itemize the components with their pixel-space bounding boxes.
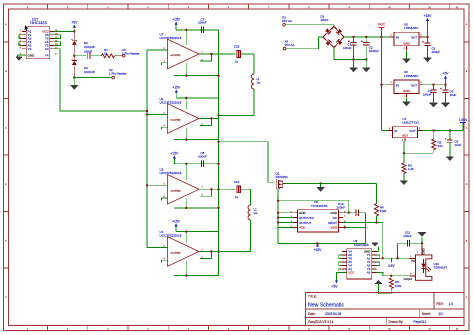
power flag +15V for U3 (171, 152, 180, 164)
wire D3 to X2 (74, 77, 110, 79)
wire U5 out to +15V (424, 37, 428, 42)
node junction C1 bottom (352, 58, 354, 60)
svg-text:TITLE:: TITLE: (308, 294, 317, 298)
svg-text:REV:: REV: (437, 302, 444, 306)
svg-text:OUTPUT/2: OUTPUT/2 (299, 216, 314, 220)
svg-text:1 Pin Header: 1 Pin Header (122, 52, 140, 56)
power flag +15V for U2 (172, 86, 181, 98)
node junction bus/C19 rail (217, 188, 219, 190)
net flag VCC (378, 23, 386, 37)
wire bridge bottom rail (334, 48, 366, 60)
svg-text:540: 540 (438, 144, 443, 148)
node junction C11/gnd/pin2 (421, 242, 423, 244)
wire output U7 (199, 54, 219, 61)
wire output U4 (199, 252, 219, 259)
ground R3 (400, 181, 408, 185)
svg-text:Output: Output (404, 277, 413, 281)
svg-text:TORH147: TORH147 (434, 265, 448, 269)
gate driver U3 UCC37322DIL8 (160, 168, 204, 204)
net flag 1.65V (459, 118, 468, 131)
resistor R4 100k (375, 204, 387, 223)
node junction C2 top (365, 36, 367, 38)
wire input pin4 stub U2 (162, 127, 168, 129)
svg-text:+15V: +15V (172, 86, 181, 90)
ground U1 (16, 57, 22, 61)
ground above opto (418, 233, 426, 244)
wire GND rail U2 (174, 128, 219, 140)
svg-text:Vcc: Vcc (411, 259, 416, 263)
diode D2 1N4148 (72, 31, 95, 55)
node junction ADJ/R3 (403, 152, 405, 154)
gate driver U4 UCC37322DIL8 (160, 230, 204, 266)
node junction bus/U2 input (146, 113, 148, 115)
node junction C6 top (449, 129, 451, 131)
wire input bus to gate drivers (147, 50, 168, 248)
wire loop U9 left A6-Y5 (339, 255, 342, 259)
svg-text:C19: C19 (234, 180, 240, 184)
node junction C5 (444, 84, 446, 86)
node junction R4/input (375, 221, 377, 223)
wire loop U9 right Y2-A2 (376, 262, 379, 266)
svg-text:100k: 100k (395, 284, 402, 288)
power flag +15V for U7 (172, 18, 181, 30)
node junction U8 pin1 (277, 212, 279, 214)
header X2 1 Pin Header (109, 68, 127, 79)
svg-text:Date:: Date: (308, 312, 316, 316)
node junction U5 out (426, 36, 428, 38)
svg-text:15V AC: 15V AC (285, 43, 296, 47)
ground on drain rail (317, 183, 325, 191)
node junction source branch (277, 200, 279, 202)
wire U6 out rail (424, 84, 446, 86)
wire X4 to bridge left (286, 37, 323, 49)
title block (306, 293, 465, 326)
ground C3 (424, 58, 432, 62)
wire X3 to bridge top (285, 25, 334, 27)
svg-text:100nF: 100nF (403, 234, 412, 238)
wire R4 node to opto region (377, 223, 398, 259)
svg-text:New Schematic: New Schematic (308, 302, 344, 308)
resistor R1 1k (102, 48, 115, 58)
svg-text:1m: 1m (257, 81, 262, 85)
svg-text:LM317T-DG: LM317T-DG (403, 121, 420, 125)
svg-text:+15V: +15V (314, 248, 323, 252)
IC U1 74HC14ES hex schmitt inverter (20, 17, 59, 58)
node junction VCC stem (380, 36, 382, 38)
svg-text:Pepe312: Pepe312 (414, 320, 427, 324)
node junction U8 pin3 (277, 221, 279, 223)
svg-text:10uF: 10uF (455, 143, 462, 147)
capacitor C3 100uF (422, 41, 440, 58)
svg-text:+5V: +5V (71, 21, 78, 25)
node junction U8 vdd right (344, 226, 346, 228)
inductor L1 1m (219, 54, 261, 116)
svg-text:15V AC: 15V AC (282, 19, 293, 23)
wire input pin4 stub U7 (162, 63, 168, 65)
node junction 3.6V flag (396, 257, 398, 259)
diode D3 1N4148 (72, 56, 95, 78)
ground C4 (430, 103, 438, 107)
svg-text:1 Pin Header: 1 Pin Header (109, 72, 127, 76)
svg-text:Y4: Y4 (45, 54, 49, 58)
svg-text:OUT: OUT (409, 129, 416, 133)
capacitor C18 1u (219, 45, 254, 64)
svg-text:100nF: 100nF (337, 205, 346, 209)
svg-text:OUT: OUT (411, 83, 418, 87)
resistor R3 1.3k (402, 153, 414, 180)
node junction drain rail/ground (319, 182, 321, 184)
regulator U7 LM317T-DG (388, 117, 422, 142)
svg-text:UCC37322DIL8: UCC37322DIL8 (160, 171, 182, 175)
wire input pin4 stub U4 (162, 260, 168, 262)
svg-text:100k: 100k (380, 209, 387, 213)
svg-text:100uF: 100uF (432, 50, 441, 54)
node junction C4 (432, 84, 434, 86)
wire U9 A1 to opto Vcc node (376, 257, 409, 259)
power flag +15V for U4 (172, 219, 181, 231)
svg-text:uCC37322: uCC37322 (171, 191, 182, 193)
svg-text:L7815ABV: L7815ABV (404, 26, 418, 30)
cursor arrow artifact (25, 25, 29, 31)
wire U1 GND to ground (18, 55, 27, 57)
wire C10/GND vertical (343, 213, 366, 244)
capacitor C2 2200uF (361, 37, 379, 60)
svg-text:ADJ: ADJ (402, 133, 408, 137)
svg-text:100nF: 100nF (84, 50, 93, 54)
svg-text:Drawn By:: Drawn By: (389, 320, 404, 324)
svg-text:3.6V: 3.6V (388, 264, 395, 268)
node junction U8 pin2 (277, 216, 279, 218)
wire U1 A4 output bus to drivers (54, 49, 147, 111)
wire GND rail U4 (174, 261, 219, 276)
svg-text:+15V: +15V (172, 219, 181, 223)
power flag +15V at U5 (424, 14, 433, 37)
wire loop U9 left A5-Y4 (339, 262, 342, 266)
svg-text:GND: GND (403, 42, 411, 46)
svg-text:1.0: 1.0 (449, 302, 454, 306)
node junction bus/U4 out (217, 250, 219, 252)
ground U9 GND pin (372, 243, 379, 251)
svg-text:+15V: +15V (172, 18, 181, 22)
wire R2 to ADJ (404, 141, 434, 153)
svg-text:100uF: 100uF (343, 46, 352, 50)
wire loop U1 left Y1-A2 (19, 35, 22, 39)
capacitor C5 10uF (440, 85, 456, 103)
node junction U6 input branch (380, 84, 382, 86)
svg-text:1m: 1m (254, 211, 259, 215)
svg-text:UCC37322DIL8: UCC37322DIL8 (160, 100, 182, 104)
wire LM317 out rail (422, 130, 463, 132)
wire long vertical bus right of drivers (218, 30, 220, 276)
optocoupler U10 TORH147 (404, 243, 448, 281)
wire VDD rail U3 (174, 164, 218, 180)
power flag +15V below U8 (314, 244, 323, 252)
wire VDD rail U2 (176, 98, 218, 109)
svg-text:2018-04-06: 2018-04-06 (325, 312, 342, 316)
node junction R6 top (390, 275, 392, 277)
wire output U3 (199, 189, 219, 196)
wire loop U9 right Y1-A1 (376, 255, 379, 259)
bridge rectifier D1 2W10 (321, 14, 345, 47)
svg-text:EasyEDA V5.3.14: EasyEDA V5.3.14 (308, 320, 334, 324)
gate driver U7 UCC37322DIL8 (160, 32, 204, 68)
resistor R6 100k (389, 278, 402, 294)
ground U5 tab (403, 50, 411, 63)
svg-text:A4: A4 (45, 47, 49, 51)
svg-text:10uF: 10uF (450, 93, 457, 97)
wire loop U1 left Y2-A3 (19, 42, 22, 46)
wire VDD rail U7 (176, 30, 219, 45)
capacitor C1 100uF (343, 37, 357, 60)
wire Q1 drain rail to R4 (285, 183, 377, 203)
ground C5 (442, 103, 450, 107)
svg-text:IN: IN (396, 36, 399, 40)
svg-text:INPUT: INPUT (328, 221, 337, 225)
svg-text:74HC14ES: 74HC14ES (30, 21, 48, 25)
svg-text:TC4420CPA: TC4420CPA (311, 204, 328, 208)
node junction C2 bottom (365, 58, 367, 60)
capacitor C4 100nF (423, 85, 437, 103)
capacitor 100nF coupling (74, 50, 101, 60)
node junction bus/U7 gnd rail (217, 74, 219, 76)
wire Q1 source node (278, 188, 349, 243)
node junction bus/U3 vdd rail (217, 163, 219, 165)
ground C6 (446, 157, 454, 161)
svg-text:1N4148: 1N4148 (84, 45, 95, 49)
svg-text:IN: IN (394, 129, 397, 133)
wire U8 left pin connections (278, 213, 293, 228)
node junction +15V stem (316, 242, 318, 244)
svg-text:100nF: 100nF (198, 21, 207, 25)
node junction bus/VCC branch (217, 141, 219, 143)
capacitor C10 100nF (337, 202, 366, 216)
svg-text:1.3k: 1.3k (408, 167, 414, 171)
net flag 3.6V (388, 258, 395, 268)
svg-text:Sheet:: Sheet: (422, 312, 431, 316)
svg-text:UCC37322DIL8: UCC37322DIL8 (160, 36, 182, 40)
svg-text:VCC: VCC (378, 23, 386, 27)
wire U9 VCC to +5V (337, 273, 347, 281)
ground C2 (363, 60, 371, 73)
svg-text:A3: A3 (367, 271, 371, 275)
resistor R2 540 (432, 131, 443, 154)
svg-text:VDD: VDD (331, 226, 338, 230)
gate driver U2 UCC37322DIL8 (160, 97, 204, 133)
svg-text:1N4148: 1N4148 (84, 70, 95, 74)
power flag +5V at U6 (443, 72, 450, 85)
wire U9 A3 to opto output (376, 273, 409, 276)
svg-text:+5V: +5V (332, 285, 339, 289)
svg-text:+5V: +5V (443, 72, 450, 76)
wire U8 VDD gnd rail (278, 227, 365, 243)
svg-text:GND: GND (422, 248, 426, 254)
node junction bus/U1 feed (146, 110, 148, 112)
node junction C10/GND pin (348, 212, 350, 214)
ground below D3 (71, 78, 79, 90)
svg-text:100nF: 100nF (198, 155, 207, 159)
svg-text:uCC37322: uCC37322 (171, 120, 182, 122)
node junction C1 top (352, 36, 354, 38)
wire GND rail U7 (174, 63, 219, 75)
node junction bus/L1 return (217, 114, 219, 116)
svg-text:IRF540N: IRF540N (276, 175, 288, 179)
node junction vcc row (382, 257, 384, 259)
wire U8 INPUT to R4 node (343, 222, 377, 224)
node junction bus/U3 input (146, 184, 148, 186)
svg-text:100nF: 100nF (423, 92, 432, 96)
ground C1 (350, 60, 358, 73)
svg-text:1u: 1u (235, 195, 239, 199)
wire U1 VCC to +5V node (54, 30, 74, 32)
svg-text:1u: 1u (235, 60, 239, 64)
wire loop U1 right A6-Y6 (54, 35, 60, 39)
header X1 1 Pin Header (115, 48, 140, 57)
wire output U2 (199, 119, 219, 126)
IC U9 74HC14ES (342, 239, 376, 279)
svg-text:OUTPUT: OUTPUT (299, 221, 312, 225)
capacitor C6 10uF (445, 131, 462, 157)
power flag +5V at U9 (332, 281, 339, 289)
wire loop U9 left A4 (339, 269, 342, 271)
wire VCC rail down to regulators (382, 37, 390, 131)
svg-text:2W10: 2W10 (321, 18, 329, 22)
svg-text:74HC14ES: 74HC14ES (354, 243, 369, 247)
svg-text:L7805ABV: L7805ABV (404, 74, 418, 78)
ground R6 return (375, 280, 391, 294)
inductor L2 1m (211, 189, 258, 251)
svg-text:+15V: +15V (424, 14, 433, 18)
svg-text:2200uF: 2200uF (369, 49, 379, 53)
capacitor C7 100nF bypass (198, 17, 207, 33)
svg-text:OUT: OUT (411, 36, 418, 40)
regulator U6 L7805ABV (390, 70, 424, 98)
node junction D2/D3/C16 (73, 55, 75, 57)
svg-text:1k: 1k (104, 51, 108, 55)
transistor Q1 IRF540N (276, 171, 288, 189)
svg-text:1/1: 1/1 (439, 312, 444, 316)
node junction bus/U3 gnd rail (217, 207, 219, 209)
svg-text:C18: C18 (234, 45, 240, 49)
wire bus to Q1 gate (219, 142, 275, 182)
svg-text:VCC: VCC (348, 271, 354, 275)
svg-text:1.65V: 1.65V (459, 118, 468, 122)
svg-text:Y3: Y3 (28, 47, 32, 51)
capacitor C11 100nF (398, 231, 422, 247)
svg-text:IN: IN (396, 83, 399, 87)
node junction +5V/D2 (73, 30, 75, 32)
header X4 15V AC (283, 39, 295, 50)
node junction R2 top (433, 129, 435, 131)
regulator U5 L7815ABV (390, 23, 424, 51)
wire input pin4 stub U3 (162, 198, 168, 200)
svg-text:+15V: +15V (171, 152, 180, 156)
node junction D3/X2 (73, 76, 75, 78)
svg-text:GND: GND (28, 54, 35, 58)
wire loop U1 right A5-Y5 (54, 42, 60, 46)
ground U6 tab (403, 98, 411, 106)
capacitor C8 100nF bypass (198, 151, 207, 167)
wire GND rail U3 (174, 199, 219, 208)
power flag +5V (71, 21, 78, 32)
svg-text:UCC37322DIL8: UCC37322DIL8 (160, 233, 182, 237)
header X3 15V AC (282, 15, 293, 26)
svg-text:uCC37322: uCC37322 (171, 253, 182, 255)
svg-text:GND: GND (299, 211, 307, 215)
wire bridge output top rail (344, 36, 390, 38)
svg-text:GND: GND (330, 211, 338, 215)
svg-text:uCC37322: uCC37322 (171, 55, 182, 57)
svg-text:GND: GND (403, 89, 411, 93)
wire VDD rail U4 (176, 232, 219, 243)
svg-text:VDD: VDD (299, 226, 306, 230)
IC U8 TC4420CPA mosfet driver (291, 200, 347, 232)
capacitor C19 1u (219, 180, 251, 199)
